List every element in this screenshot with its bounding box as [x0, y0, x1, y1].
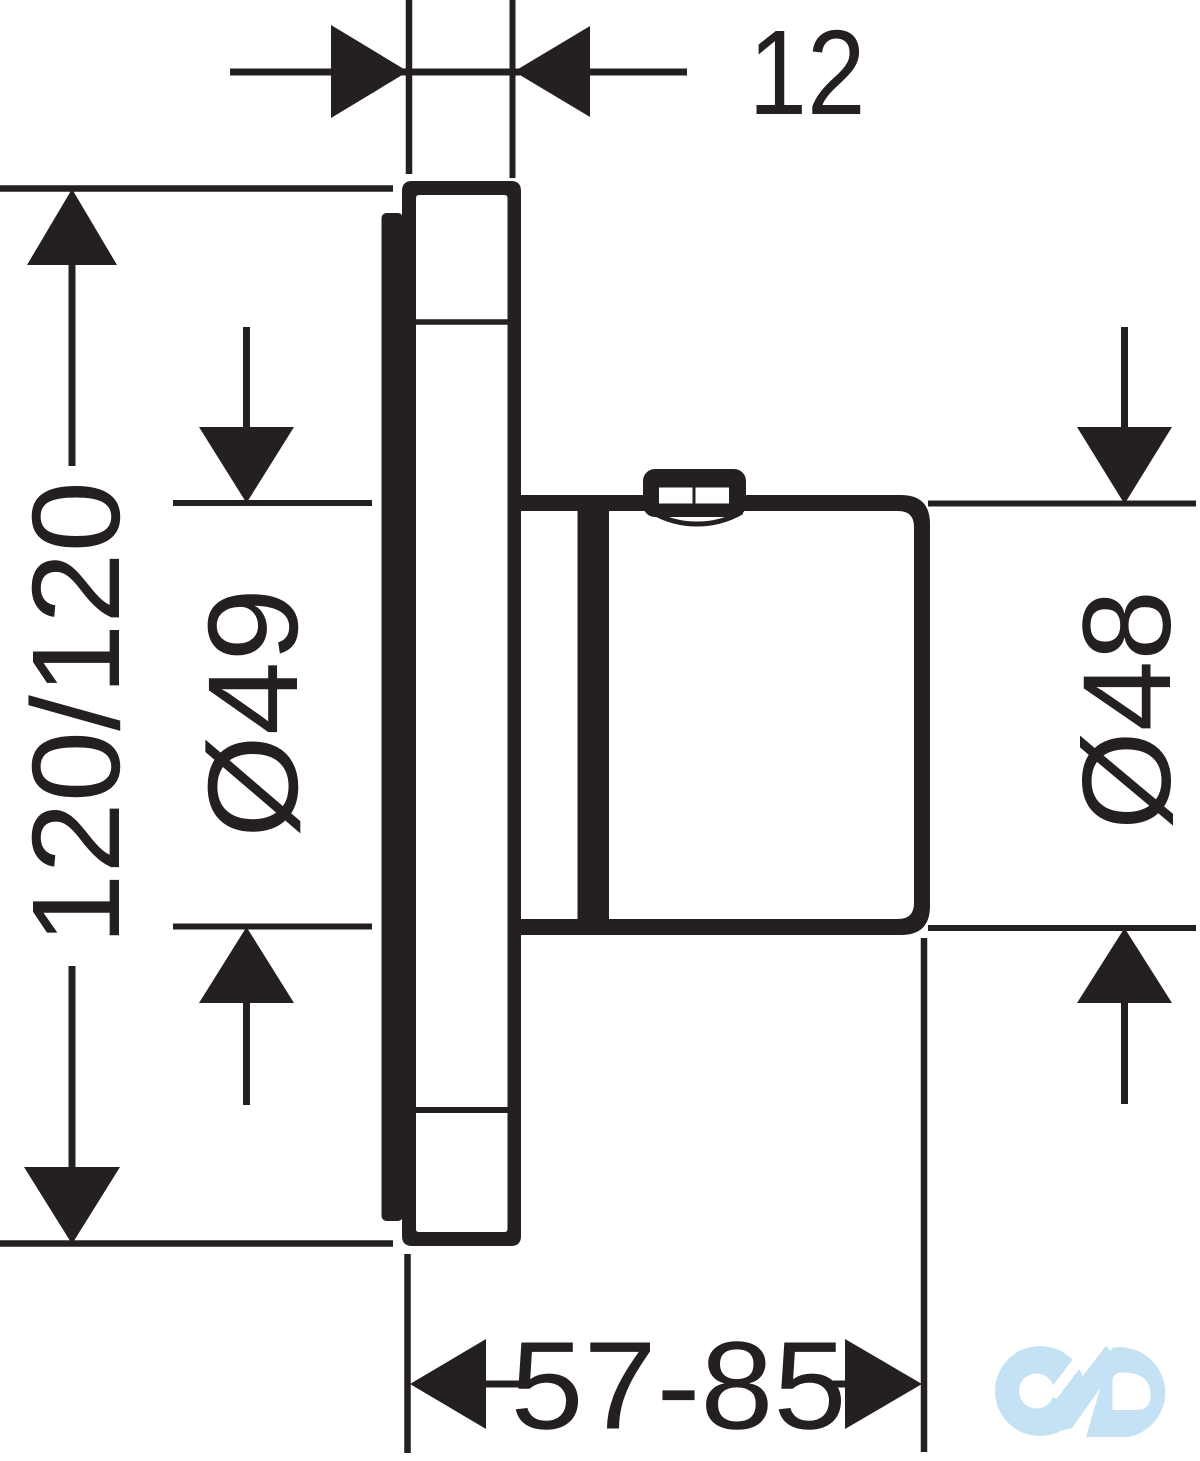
arrow 120/120 down	[24, 1167, 120, 1244]
watermark logo left loop	[995, 1346, 1085, 1436]
arrow d49 up	[199, 927, 294, 1003]
tab slot left	[659, 488, 693, 504]
watermark logo right counter	[1113, 1373, 1151, 1411]
svg-text:120/120: 120/120	[7, 481, 146, 945]
dimension line 120/120 upper segment	[69, 262, 76, 466]
plate inner line bottom	[416, 1107, 508, 1113]
svg-text:57-85: 57-85	[511, 1317, 847, 1456]
d49 leader line lower	[243, 1000, 250, 1105]
extension line 57-85 left	[404, 1254, 411, 1453]
escutcheon back bar	[382, 213, 404, 1221]
reference line 120/120 bottom	[0, 1240, 393, 1247]
extension line 57-85 right	[921, 938, 928, 1452]
watermark logo diagonal band	[1048, 1346, 1120, 1434]
arrow 57-85 right	[845, 1339, 922, 1429]
extension line top-left (12 dim)	[406, 0, 413, 174]
arrow 120/120 up	[27, 189, 117, 265]
57-85 stub left	[483, 1381, 519, 1388]
svg-text:Ø48: Ø48	[1058, 590, 1197, 830]
handle top tab	[643, 469, 746, 517]
handle neck ring	[578, 503, 610, 927]
d48 leader line lower	[1121, 1000, 1128, 1104]
arc under tab	[652, 512, 742, 524]
reference line d49 bottom	[173, 924, 372, 930]
dimension line 120/120 lower segment	[69, 966, 76, 1170]
svg-text:Ø49: Ø49	[182, 588, 325, 838]
dimension line 12	[230, 69, 687, 76]
reference line d49 top	[173, 500, 372, 506]
handle body outline	[521, 495, 930, 935]
watermark logo right loop	[1086, 1347, 1165, 1437]
arrow d48 up	[1077, 928, 1172, 1003]
reference line 120/120 top	[0, 185, 393, 192]
arrow 57-85 left	[410, 1339, 486, 1429]
arrow d49 down	[199, 427, 294, 503]
d49 leader line upper	[243, 327, 250, 432]
arrow d48 down	[1077, 427, 1172, 504]
svg-text:12: 12	[749, 4, 866, 140]
reference line d48 top	[928, 501, 1196, 507]
arrow 12 left	[331, 25, 408, 118]
arrow 12 right	[514, 26, 590, 117]
wall plate side view	[402, 181, 521, 1246]
tab slot right	[696, 488, 730, 504]
57-85 stub right	[828, 1381, 850, 1388]
d48 leader line upper	[1121, 327, 1128, 432]
extension line top-right (12 dim)	[510, 0, 516, 178]
plate inner line top	[416, 319, 508, 325]
watermark logo opening slot	[1052, 1348, 1088, 1396]
reference line d48 bottom	[928, 925, 1196, 931]
